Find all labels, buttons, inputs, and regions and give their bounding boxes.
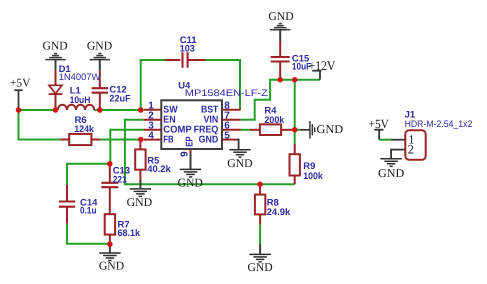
svg-text:22uF: 22uF: [109, 93, 131, 104]
svg-text:+5V: +5V: [10, 75, 31, 89]
svg-text:10uH: 10uH: [70, 95, 91, 106]
svg-text:GND: GND: [178, 175, 204, 189]
svg-text:0.1u: 0.1u: [80, 206, 97, 217]
svg-text:9: 9: [179, 151, 190, 157]
svg-text:GND: GND: [378, 166, 405, 180]
svg-text:GND: GND: [87, 39, 113, 53]
svg-text:124k: 124k: [74, 124, 95, 135]
svg-text:MP1584EN-LF-Z: MP1584EN-LF-Z: [185, 88, 268, 99]
svg-text:2: 2: [408, 143, 414, 157]
svg-text:GND: GND: [248, 260, 274, 274]
svg-text:24.9k: 24.9k: [267, 207, 291, 218]
svg-text:40.2k: 40.2k: [147, 164, 171, 175]
svg-text:GND: GND: [127, 195, 153, 209]
svg-text:10uF: 10uF: [292, 61, 312, 72]
svg-text:100k: 100k: [303, 171, 323, 182]
svg-text:+5V: +5V: [369, 117, 389, 131]
svg-text:5: 5: [224, 130, 230, 141]
svg-text:GND: GND: [317, 122, 344, 136]
svg-text:4: 4: [148, 130, 154, 141]
svg-text:200k: 200k: [264, 115, 285, 126]
svg-text:GND: GND: [199, 134, 219, 145]
svg-text:GND: GND: [268, 9, 294, 23]
svg-text:+12V: +12V: [309, 58, 336, 73]
svg-text:EP: EP: [185, 136, 196, 147]
svg-text:GND: GND: [43, 39, 69, 53]
svg-text:221: 221: [113, 174, 127, 185]
svg-text:103: 103: [180, 43, 195, 54]
svg-text:GND: GND: [227, 156, 253, 170]
svg-text:GND: GND: [99, 258, 125, 272]
svg-text:68.1k: 68.1k: [118, 228, 141, 239]
svg-text:1N4007W: 1N4007W: [59, 72, 101, 83]
svg-text:HDR-M-2.54_1x2: HDR-M-2.54_1x2: [405, 119, 473, 130]
svg-text:FB: FB: [163, 134, 173, 145]
